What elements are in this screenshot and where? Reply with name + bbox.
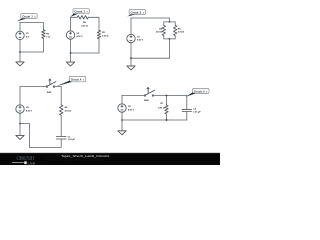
wire: circuit 3 right stem	[169, 39, 171, 58]
wire: circuit 2 ground stem	[70, 53, 72, 62]
wire: circuit 2 bottom	[71, 52, 100, 54]
wire: R4 stub bottom	[163, 36, 165, 39]
wire: circuit 2 right rail upper	[98, 17, 100, 30]
wire: circuit 3 drop to parallel bar	[169, 18, 171, 22]
svg-text:1.01 μF: 1.01 μF	[68, 139, 76, 141]
node label Circuit_1	[21, 14, 37, 19]
svg-text:2.01 Ω: 2.01 Ω	[81, 25, 88, 27]
wire: R7 stub top	[166, 96, 168, 106]
wire: circuit 5 left rail upper	[121, 96, 123, 104]
switch SW2	[144, 87, 154, 96]
svg-text:8.01 V: 8.01 V	[77, 36, 84, 38]
svg-text:9.01 Ω: 9.01 Ω	[158, 107, 165, 109]
wire: circuit 4 top left	[20, 86, 46, 88]
wire: circuit 2 left rail upper	[70, 17, 72, 31]
label pointer tail circuit 3	[127, 15, 135, 17]
wire: circuit 4 bottom	[29, 146, 61, 148]
wire: circuit 4 cap to bottom	[60, 139, 62, 147]
resistor R4	[162, 25, 165, 35]
svg-text:LAB: LAB	[27, 160, 35, 165]
label pointer tail circuit 1	[17, 18, 27, 21]
ground circuit 2	[66, 62, 74, 66]
junction dot circuit 1	[19, 51, 21, 53]
wire: circuit 1 right rail lower	[42, 38, 44, 52]
wire: circuit 2 top right	[88, 16, 99, 18]
wire: circuit 2 top left	[71, 16, 78, 18]
wire: circuit 5 ground stem	[121, 120, 123, 131]
svg-text:Circuit_4: Circuit_4	[71, 79, 82, 82]
svg-text:2.01 Ω: 2.01 Ω	[156, 32, 163, 34]
ground circuit 1	[16, 62, 24, 66]
resistor R5	[174, 25, 177, 35]
wire: circuit 5 bottom	[122, 119, 187, 121]
svg-text:3.01 Ω: 3.01 Ω	[102, 35, 109, 37]
wire: circuit 1 right rail upper	[42, 23, 44, 30]
resistor R6	[60, 105, 63, 115]
junction dot circuit 5 R7 bottom	[166, 119, 168, 121]
resistor R7	[165, 105, 168, 114]
wire: circuit 2 left rail lower	[70, 39, 72, 53]
svg-text:8.01 V: 8.01 V	[26, 110, 33, 112]
node label Circuit_3	[129, 10, 145, 15]
junction dot circuit 5 left	[121, 119, 123, 121]
wire: circuit 3 ground stem	[130, 58, 132, 66]
wire: circuit 4 ground stem	[19, 124, 21, 136]
wire: C2 stub bottom	[186, 112, 188, 121]
node label Circuit_4	[69, 76, 86, 81]
wire: C2 stub top	[186, 96, 188, 110]
wire: circuit 4 left rail lower	[19, 113, 21, 123]
label pointer tail circuit 4	[56, 81, 72, 87]
junction dot circuit 3 bottom bar	[169, 38, 171, 40]
resistor R3	[97, 30, 100, 39]
voltage source V2	[66, 31, 74, 39]
ground circuit 5	[118, 131, 126, 135]
resistor R2	[77, 16, 88, 19]
wire: circuit 3 bottom	[131, 57, 170, 59]
svg-text:Circuit_3: Circuit_3	[131, 12, 142, 15]
wire: circuit 1 ground stem	[19, 52, 21, 62]
voltage source V3	[127, 34, 135, 42]
svg-text:1.01 μF: 1.01 μF	[193, 112, 201, 114]
wire: circuit 5 top left	[122, 95, 144, 97]
svg-text:http//circuitlab.com/c6khy3a5d: http//circuitlab.com/c6khy3a5da29	[44, 157, 104, 161]
junction dot circuit 5 top	[166, 95, 168, 97]
wire: circuit 3 left rail lower	[130, 43, 132, 59]
svg-text:3.01 Ω: 3.01 Ω	[178, 32, 185, 34]
CircuitLab logo	[12, 156, 35, 165]
wire: circuit 4 left rail upper	[19, 87, 21, 105]
wire: parallel bottom bar	[164, 38, 175, 40]
wire: parallel top bar	[164, 21, 175, 23]
label pointer tail circuit 2	[70, 14, 78, 17]
wire: R4 stub top	[163, 22, 165, 26]
junction dot circuit 4	[19, 123, 21, 125]
wire: circuit 3 top	[131, 17, 170, 19]
junction dot circuit 3 left	[130, 57, 132, 59]
node label Circuit_5	[193, 89, 210, 94]
wire: R5 stub top	[174, 22, 176, 26]
ground circuit 3	[127, 66, 135, 70]
junction dot circuit 3 top	[169, 21, 171, 23]
voltage source V4	[16, 105, 24, 113]
wire: circuit 1 bottom	[20, 51, 43, 53]
wire: circuit 1 left rail lower	[19, 40, 21, 52]
wire: circuit 5 left rail lower	[121, 112, 123, 120]
voltage source V1	[16, 31, 24, 39]
wire: circuit 3 left rail upper	[130, 18, 132, 34]
svg-text:4.01 Ω: 4.01 Ω	[65, 109, 72, 112]
wire: circuit 1 top	[20, 22, 43, 24]
capacitor C2	[182, 109, 191, 111]
svg-text:Circuit_5: Circuit_5	[194, 91, 205, 94]
resistor R1	[42, 30, 45, 39]
wire: circuit 4 jog vertical	[28, 124, 30, 148]
wire: circuit 4 jog horizontal	[20, 123, 29, 125]
label pointer tail circuit 5	[186, 92, 196, 97]
svg-text:8.01 V: 8.01 V	[128, 109, 135, 111]
wire: R7 stub bottom	[166, 114, 168, 120]
svg-text:Circuit_1: Circuit_1	[22, 16, 33, 19]
capacitor C1	[56, 137, 66, 140]
svg-text:9.01 V: 9.01 V	[137, 40, 144, 42]
svg-text:Circuit_2: Circuit_2	[74, 11, 85, 14]
wire: R5 stub bottom	[174, 36, 176, 39]
wire: circuit 4 right rail mid	[60, 115, 62, 136]
wire: circuit 5 top right	[154, 95, 187, 97]
wire: circuit 4 top right	[55, 86, 61, 88]
wire: circuit 4 right rail upper	[60, 87, 62, 105]
switch SW1	[46, 79, 56, 87]
junction dot circuit 2	[70, 52, 72, 54]
wire: circuit 2 right rail lower	[98, 39, 100, 53]
voltage source V5	[118, 104, 126, 112]
footer bar	[0, 153, 220, 165]
svg-text:1 Ω: 1 Ω	[46, 37, 50, 39]
node label Circuit_2	[73, 9, 89, 14]
ground circuit 4	[16, 135, 24, 139]
wire: circuit 1 left rail upper	[19, 23, 21, 32]
